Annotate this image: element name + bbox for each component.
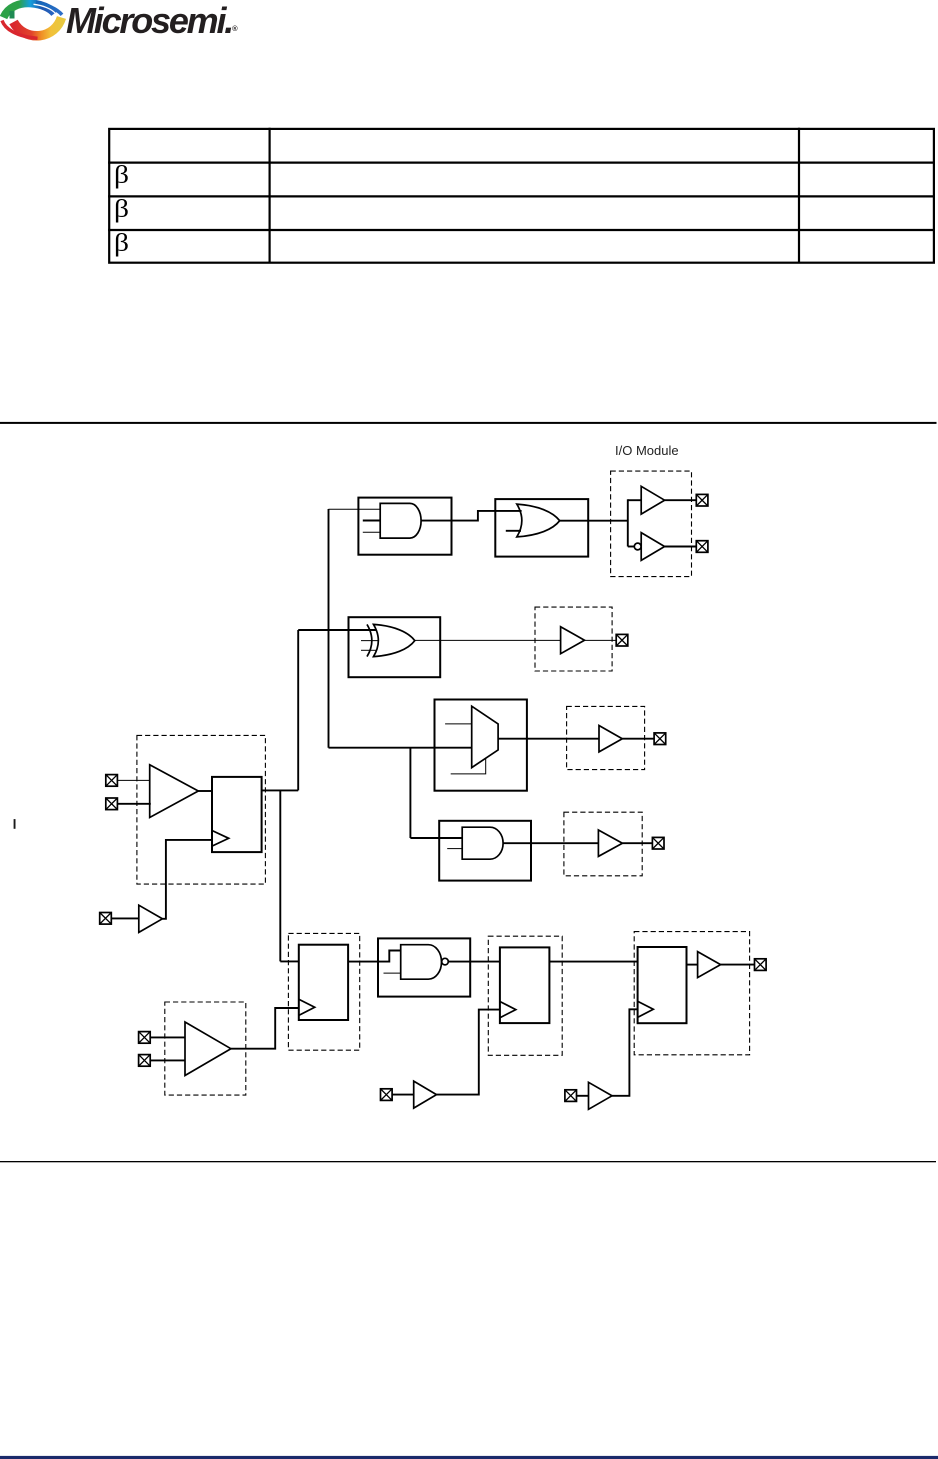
wire or1 output [560,520,628,522]
wire pad11 to clock buffer mid1 [392,1094,414,1096]
wire ff3 buffer to pad [721,964,755,966]
buffer IO1 triangle [641,486,664,514]
wire clock buffer left to ff0 clock [162,840,212,919]
wire net3 vertical to and2 [409,748,411,838]
dff FF2 body [500,947,550,1023]
wire and2 output to buffer [503,842,598,844]
beta row 1 [114,163,129,188]
wire ff0 d input [198,790,212,792]
xor gate X1 [374,624,415,656]
io pad P2 [696,541,708,553]
dashed box DFF3 [634,932,749,1055]
xor gate X1 input arc [367,624,372,656]
wire pad9 to big buffer [150,1036,185,1038]
wire mux output to buffer [498,738,599,740]
dashed box DFF2 [488,936,562,1055]
cluster box AND2 [439,821,531,881]
dff FF1 clock triangle [299,999,315,1015]
and gate A1 [380,503,421,538]
wire pad12 to clock buffer mid2 [577,1095,589,1097]
nand gate N1 [401,945,442,980]
I/O module dashed box [611,471,692,576]
io pad P11 [381,1089,393,1101]
wire pad6 to input buffer [117,779,150,781]
wire mux select input [451,759,486,774]
wire clock buffer mid1 to ff2 clock [437,1010,500,1095]
wire ff0 q output [262,789,299,791]
io pad P10 [139,1055,151,1067]
nand gate N1 bubble [442,958,449,965]
buffer FF3 output triangle [698,952,721,978]
dashed box input buffer bottom left [165,1002,246,1095]
wire pad10 to big buffer [150,1059,185,1061]
beta row 2 [114,197,129,222]
wire xor middle input stub [361,640,378,642]
table header bottom line [108,162,935,164]
table outer border [109,129,934,263]
wire xor buffer to pad [585,639,617,641]
input buffer large left triangle [150,765,199,818]
wire ff1 q to nand [348,951,401,962]
wire and1 mid input stub [363,520,380,522]
wire mux main input [329,747,472,749]
navy footer bar [0,1456,938,1459]
io pad P6 [106,775,118,787]
wire ff2 q to ff3 [549,961,637,963]
wire and2 main input [410,837,462,839]
clock buffer mid2 triangle [589,1082,613,1109]
wire pad7 to input buffer [117,803,150,805]
Microsemi wordmark [66,0,238,42]
table [0,0,938,300]
clock buffer mid1 triangle [414,1081,437,1108]
io pad P4 [654,733,666,745]
buffer XOR row triangle [561,627,585,654]
beta row 3 [114,231,129,256]
buffer AND2 row triangle [598,830,622,856]
wire xor output to buffer [415,639,561,641]
logo swirl outer red arc [2,21,38,39]
table column divider 2 [798,128,800,263]
wire pad8 to clock buffer [111,917,139,919]
cluster box AND1 [358,498,451,555]
I/O Module label [615,443,695,458]
dff FF0 clock triangle [212,831,229,847]
io pad P9 [139,1032,151,1044]
dff FF0 body [212,777,262,852]
dashed box DFF1 [288,933,359,1050]
dff FF3 clock triangle [638,1001,654,1017]
wire or1 lower input stub [506,530,521,532]
input buffer large bottom-left triangle [185,1022,231,1076]
stray letter l [14,819,16,829]
wire ff1 d input [280,960,299,962]
io pad P7 [106,798,118,810]
wire io buffer2 input [628,546,635,548]
wire and2 lower input stub [447,848,462,850]
wire xor main input [298,629,376,631]
dff FF2 clock triangle [500,1002,516,1018]
horizontal rule bottom [0,1161,936,1162]
wire xor bottom input stub [361,649,377,651]
io pad P8 [100,913,112,925]
wire nand lower input stub [384,972,401,974]
wire and1 output to or1 [421,511,522,521]
dashed box input buffer and DFF left [137,735,266,884]
clock buffer left triangle [139,905,163,932]
table row line 1 [108,195,935,197]
dff FF3 body [638,947,687,1023]
buffer IO2 input bubble [634,543,641,550]
wire ff3 q to buffer [687,964,698,966]
io pad P1 [696,494,708,506]
wire mux buffer to pad [622,738,654,740]
cluster box MUX1 [435,700,527,791]
logo swirl green tail [10,11,15,19]
wire net1 vertical [328,509,330,748]
wire and1 bottom input stub [363,531,380,533]
wire io buffer1 output to pad [665,499,697,501]
logo swirl outer blue arc [36,3,62,15]
wire io branch vertical [627,499,629,546]
cluster box XOR1 [349,617,441,677]
dashed box buffer MUX row [567,706,645,769]
buffer IO2 triangle [641,533,664,561]
buffer MUX row triangle [599,726,622,752]
logo swirl blue arc separator [34,4,56,13]
wire big buffer bl to ff1 clock [231,1008,299,1049]
wire and2 buffer to pad [622,842,652,844]
horizontal rule top [0,422,937,424]
table column divider 1 [269,128,271,263]
logo swirl bottom arc [14,18,62,36]
Microsemi logo icon [0,0,66,42]
wire mux upper input stub [445,723,472,725]
logo swirl top arc [4,3,55,17]
dff FF1 body [299,945,348,1020]
io pad P5 [652,837,664,849]
io pad P3 [616,634,628,646]
dashed box buffer XOR row [535,607,612,671]
cluster box OR1 [495,499,588,556]
wire io buffer2 output to pad [665,546,697,548]
mux gate M1 [472,706,498,767]
wire clock buffer mid2 to ff3 clock [612,1009,638,1096]
wire nand output to ff2 [448,961,500,963]
and gate A2 [462,827,503,859]
table row line 2 [108,229,935,231]
io pad P13 [755,959,767,971]
or gate O1 [517,504,560,537]
dashed box buffer AND2 row [564,812,642,876]
io pad P12 [565,1090,577,1102]
wire net2 vertical [297,630,299,790]
wire and1 top input [329,508,381,510]
wire io buffer1 input [628,499,641,501]
cluster box NAND1 [378,938,470,996]
wire net4 vertical [279,790,281,962]
